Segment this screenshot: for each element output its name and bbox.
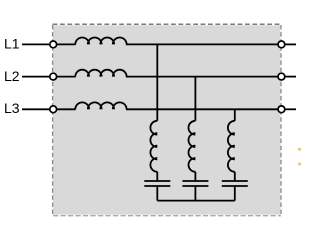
svg-text:L1: L1 bbox=[4, 36, 20, 52]
svg-text:L3: L3 bbox=[4, 100, 20, 116]
svg-text:L2: L2 bbox=[4, 68, 20, 84]
